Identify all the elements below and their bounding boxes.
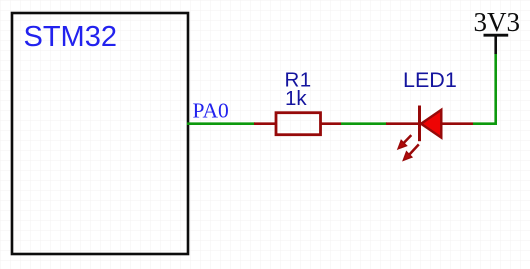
resistor R1 right pin — [321, 122, 342, 125]
LED1 left pin (cathode wire) — [386, 122, 420, 125]
resistor R1 left pin — [254, 122, 276, 125]
resistor R1 body — [276, 113, 321, 135]
wire 3V3 vertical (green) — [494, 54, 497, 126]
label R1 — [285, 68, 312, 91]
LED1 right pin (anode wire) — [441, 122, 473, 125]
svg-text:1k: 1k — [285, 87, 307, 110]
LED1 triangle — [421, 110, 441, 138]
microcontroller U1 STM32 box — [12, 13, 188, 254]
label STM32 — [24, 21, 117, 53]
svg-text:STM32: STM32 — [24, 21, 117, 53]
svg-text:3V3: 3V3 — [474, 7, 521, 37]
power bar 3V3 — [484, 34, 509, 37]
pin label PA0 — [193, 99, 229, 123]
wire LED1 to 3V3 (green, horizontal) — [473, 122, 496, 125]
wire PA0 to R1 (green) — [187, 122, 255, 125]
wire R1 to LED1 (green) — [341, 122, 387, 125]
label LED1 — [403, 68, 457, 92]
LED1 emission arrow upper — [398, 135, 411, 149]
svg-text:PA0: PA0 — [193, 99, 229, 123]
value 1k — [285, 87, 307, 110]
svg-text:LED1: LED1 — [403, 68, 457, 92]
power pin stem (black) — [494, 35, 497, 54]
LED1 emission arrow lower — [403, 144, 419, 160]
LED1 cathode bar — [418, 106, 421, 142]
net label 3V3 — [474, 7, 521, 37]
